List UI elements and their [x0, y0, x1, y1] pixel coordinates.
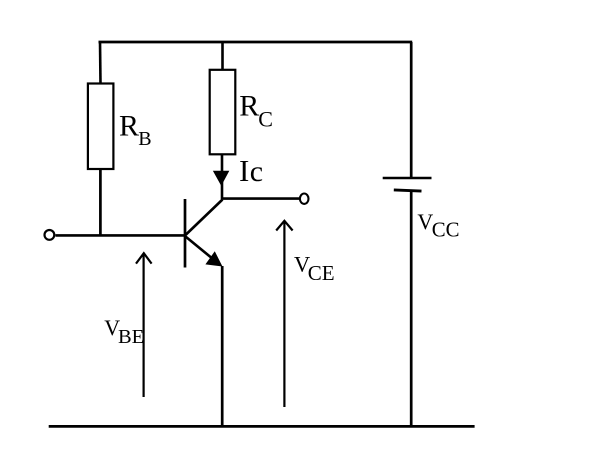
- svg-text:BE: BE: [118, 326, 144, 348]
- svg-text:c: c: [250, 155, 263, 188]
- svg-text:B: B: [138, 128, 151, 150]
- svg-text:R: R: [119, 110, 139, 143]
- svg-text:C: C: [258, 106, 273, 131]
- svg-text:CC: CC: [432, 218, 460, 241]
- svg-text:R: R: [239, 90, 259, 123]
- svg-text:CE: CE: [308, 261, 335, 285]
- svg-text:I: I: [239, 153, 249, 188]
